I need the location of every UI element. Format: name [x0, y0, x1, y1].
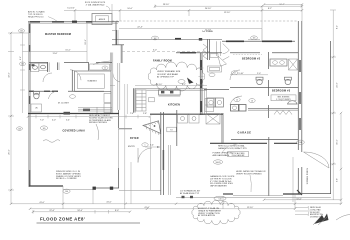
svg-text:15'-5": 15'-5" — [65, 50, 70, 52]
squiggle leader lanai — [43, 140, 60, 143]
wall: garage east x269 — [268, 137, 270, 196]
svg-text:MASTER BEDROOM: MASTER BEDROOM — [45, 33, 71, 36]
tag oval wing — [93, 61, 110, 65]
garage notes — [213, 144, 248, 157]
tag oval lanai — [40, 126, 47, 130]
svg-text:12: 12 — [104, 68, 106, 70]
entry porch: hatched wedge — [143, 121, 161, 135]
wall: x177 — [176, 110, 178, 146]
note block lanai lower (window note) — [56, 171, 82, 180]
svg-text:ENTRY: ENTRY — [128, 146, 136, 148]
svg-text:13'-2": 13'-2" — [85, 39, 87, 44]
bottom dim segment right — [264, 199, 341, 201]
svg-text:8'-0": 8'-0" — [115, 210, 119, 212]
svg-text:FAMILY ROOM: FAMILY ROOM — [153, 60, 172, 63]
wall: hall west x200 — [199, 53, 201, 115]
svg-text:20'-0": 20'-0" — [9, 149, 11, 154]
svg-text:2'-0": 2'-0" — [257, 73, 261, 75]
tag oval left wall mid — [20, 62, 26, 66]
svg-text:5'-0 1/2": 5'-0 1/2" — [67, 8, 75, 10]
svg-text:18'-4": 18'-4" — [77, 210, 82, 212]
dimension line top row2 left — [64, 8, 302, 11]
tag oval foyer — [142, 143, 148, 147]
revision cloud bottom center — [192, 200, 240, 224]
dim line lanai top with ticks — [28, 113, 150, 122]
master bath door arcs — [43, 73, 52, 82]
svg-text:SOAKING: SOAKING — [87, 79, 97, 82]
wall: left exterior — [28, 22, 30, 187]
wall: entry west double x161-164 — [160, 112, 162, 195]
left dimension vertical 1 — [8, 33, 29, 190]
window marks on left wall — [29, 24, 31, 33]
wall: porch/garage bottom — [223, 193, 233, 195]
svg-text:AT DRIVE APRON: AT DRIVE APRON — [198, 214, 216, 217]
wall: wing bottom — [28, 113, 119, 115]
closet shelves master — [78, 107, 112, 113]
kitchen counter top — [135, 88, 207, 90]
tag oval above top wall — [152, 36, 159, 40]
dimension line top row1 — [155, 4, 302, 8]
svg-text:12'-10": 12'-10" — [224, 12, 231, 14]
svg-text:22'-6": 22'-6" — [49, 210, 54, 212]
svg-text:OF EXIST HDR BEAM: OF EXIST HDR BEAM — [157, 73, 178, 76]
revision cloud family room — [148, 62, 205, 91]
svg-text:REQD FF EL 8.0: REQD FF EL 8.0 — [28, 16, 44, 18]
svg-text:105: 105 — [43, 128, 46, 130]
tag oval bath2 — [231, 71, 237, 75]
wall: porch east double — [330, 41, 332, 194]
bottom dimension line 2 — [30, 207, 295, 209]
dim line main top interior — [119, 28, 262, 30]
bed2 interior dim — [230, 73, 268, 75]
wall: bath/bed3 divider y87.4 — [230, 86, 298, 88]
wall: garage west x222.5 — [221, 113, 223, 143]
tag oval garage — [213, 160, 222, 164]
closet chevrons bed3 — [274, 111, 292, 115]
entry dim arrow — [145, 146, 160, 148]
left dimension vertical 2 — [20, 33, 25, 113]
svg-text:106: 106 — [299, 142, 302, 144]
wall: x207 upper — [207, 39, 209, 60]
wall: master bath divider y62.4 — [29, 61, 48, 63]
washer dryer boxes — [207, 98, 223, 107]
svg-text:VAPOR BARRIER: VAPOR BARRIER — [210, 185, 227, 188]
svg-text:VERIFY SPAN AND SIZE: VERIFY SPAN AND SIZE — [157, 70, 181, 73]
wall segs master bath — [71, 70, 73, 91]
foyer closet walls — [115, 30, 117, 45]
svg-text:GARAGE DOOR, IMPACT RTD: GARAGE DOOR, IMPACT RTD — [218, 147, 247, 150]
NE bath fixtures — [270, 59, 298, 70]
bath2 door arc — [230, 70, 240, 80]
screened porch door arc — [304, 152, 330, 168]
top right nook verticals — [261, 29, 263, 41]
svg-text:AND HARDWARE: AND HARDWARE — [213, 154, 230, 157]
svg-text:10'-0": 10'-0" — [127, 8, 132, 10]
entry door arc — [138, 148, 152, 163]
wall: NE exterior double — [297, 21, 299, 150]
svg-text:COVERED LANAI: COVERED LANAI — [63, 129, 86, 132]
tag box TV right of wedge — [167, 127, 177, 132]
dark tag on wing bottom — [64, 112, 71, 115]
svg-text:4'-0": 4'-0" — [52, 120, 56, 122]
svg-text:2'-8": 2'-8" — [143, 113, 147, 115]
tag oval left lanai — [17, 127, 23, 131]
SE note leaders — [295, 206, 309, 216]
svg-text:41'-0": 41'-0" — [106, 202, 111, 204]
bed3 door arc — [230, 96, 242, 105]
svg-text:10'-10": 10'-10" — [156, 84, 163, 86]
bottom leader notes left of cloud — [180, 190, 201, 199]
svg-text:INSTALL PER MFG: INSTALL PER MFG — [89, 121, 107, 124]
boxed note bed3 — [271, 95, 296, 101]
wall: family room north line y39.3 — [112, 38, 222, 40]
wall: top wall right y41.3 — [222, 40, 295, 42]
master tub/shower big box — [75, 71, 112, 92]
svg-text:16: 16 — [251, 101, 253, 103]
window marks on top wall — [30, 21, 40, 23]
svg-text:KITCHEN: KITCHEN — [168, 104, 180, 107]
tag oval left wall upper — [19, 29, 25, 33]
toilet bath2 — [256, 77, 263, 84]
svg-text:AT SLAB EDGE TYP: AT SLAB EDGE TYP — [180, 192, 200, 195]
bath partition stubs — [47, 62, 49, 72]
svg-text:24'-6": 24'-6" — [337, 82, 339, 87]
wall: bed2 east x268 — [268, 52, 270, 69]
wall: foyer north y128.8 — [118, 128, 132, 130]
hall door arcs near x222 — [223, 44, 230, 54]
water heater corner — [208, 54, 227, 77]
wall kitchen west — [132, 88, 134, 112]
vanity bath2 bottom — [231, 105, 247, 112]
wall: bed3 south y139.5 — [231, 139, 298, 141]
svg-text:C10: C10 — [218, 198, 221, 200]
svg-text:AT OPENING TYP: AT OPENING TYP — [157, 76, 175, 79]
closet boxes wing corridor — [104, 94, 111, 113]
master bath: vanity top-left — [31, 64, 48, 72]
svg-text:GARAGE: GARAGE — [238, 131, 252, 134]
svg-text:4" DIA. LEADER RQD: 4" DIA. LEADER RQD — [86, 3, 105, 6]
svg-text:105: 105 — [20, 31, 23, 33]
svg-text:9'-2": 9'-2" — [20, 56, 22, 60]
SE arrow icon — [313, 214, 329, 226]
svg-text:6'-2": 6'-2" — [182, 84, 186, 86]
WC toilet — [31, 92, 42, 113]
bottom small dim line — [33, 210, 130, 214]
posts lanai front — [93, 187, 96, 190]
svg-text:9'-8": 9'-8" — [337, 178, 339, 182]
svg-text:5.7 SQFT VERIFY: 5.7 SQFT VERIFY — [276, 99, 292, 101]
interior dim master — [23, 51, 88, 53]
stairs box near laundry — [206, 114, 220, 125]
svg-text:41'-0": 41'-0" — [39, 202, 44, 204]
note block above foyer — [89, 114, 113, 124]
svg-text:15: 15 — [236, 100, 238, 102]
SE note block — [310, 207, 323, 219]
svg-text:24'-10": 24'-10" — [205, 8, 212, 10]
svg-text:12'-10": 12'-10" — [247, 207, 254, 209]
tag oval bottom center — [214, 196, 226, 200]
svg-text:ARBOR: ARBOR — [99, 18, 106, 21]
svg-text:101: 101 — [253, 38, 256, 40]
svg-text:8'-2": 8'-2" — [337, 25, 339, 29]
laundry top wall — [204, 89, 229, 91]
wall: master wing top — [28, 21, 119, 23]
tag oval right — [297, 140, 305, 144]
wall: hall south y52.7 — [176, 52, 222, 54]
svg-text:104: 104 — [21, 64, 24, 66]
wall: bed3 closet y108.8 double — [248, 108, 298, 110]
door arc family to wing hall — [113, 73, 120, 82]
svg-text:16'-0": 16'-0" — [337, 139, 339, 144]
bottom dim risers — [124, 84, 126, 209]
svg-text:VERIFY ROUGH OPENING: VERIFY ROUGH OPENING — [236, 173, 262, 175]
svg-text:22x54 LADDER: 22x54 LADDER — [232, 154, 245, 157]
wall: lanai bottom — [29, 185, 63, 187]
svg-text:102: 102 — [154, 38, 157, 40]
zigzag attic stair — [203, 44, 207, 59]
kitchen dim line — [135, 85, 207, 87]
svg-text:5'-4": 5'-4" — [66, 120, 70, 122]
dimension risers top — [75, 4, 302, 29]
svg-text:BEDROOM #3: BEDROOM #3 — [272, 89, 291, 92]
svg-text:3'-0": 3'-0" — [153, 49, 157, 51]
svg-text:22'-4": 22'-4" — [137, 27, 142, 29]
svg-text:M. CLOSET: M. CLOSET — [58, 103, 70, 105]
svg-text:FOYER: FOYER — [130, 138, 139, 140]
kitchen right counter — [205, 89, 214, 114]
svg-text:32'-0": 32'-0" — [9, 72, 11, 77]
svg-text:7'-4": 7'-4" — [130, 113, 134, 115]
svg-text:BEDROOM #2: BEDROOM #2 — [242, 57, 261, 60]
svg-text:7'-0": 7'-0" — [40, 120, 44, 122]
svg-text:FLOOD ZONE AE8': FLOOD ZONE AE8' — [40, 216, 85, 221]
laundry cabinets row — [178, 114, 200, 123]
kitchen island — [159, 90, 181, 96]
family room dashed clg line — [122, 49, 210, 51]
svg-text:IN FIELD + CONFIRM: IN FIELD + CONFIRM — [56, 178, 77, 180]
svg-text:11'-6": 11'-6" — [52, 53, 57, 55]
entry side risers — [150, 117, 152, 190]
kitchen pantry shelves — [136, 90, 146, 111]
wall: garage north y143.3 — [210, 142, 267, 144]
roof overhang dashed line — [112, 20, 297, 22]
svg-text:5'-10": 5'-10" — [238, 73, 243, 75]
driveway curve — [336, 215, 350, 221]
svg-text:29'-10": 29'-10" — [163, 4, 170, 6]
note: roof downspout note top center — [85, 2, 110, 11]
tag oval bottom-left corner — [63, 189, 70, 193]
leader notes above garage door — [236, 170, 266, 192]
svg-text:16070: 16070 — [216, 162, 221, 164]
wall: foyer west column — [115, 22, 117, 30]
tag ovals hall — [234, 98, 240, 102]
bottom dimension line 1 — [11, 198, 341, 204]
svg-text:8'-2": 8'-2" — [268, 8, 272, 10]
svg-text:5'-4": 5'-4" — [150, 145, 154, 147]
svg-text:2x4 FRAME: 2x4 FRAME — [202, 30, 214, 33]
note: elevation note top-left with leader — [28, 11, 57, 22]
wall: wing east double — [110, 53, 112, 72]
boxed note garage — [228, 152, 249, 158]
svg-text:SCREEN PORCH: SCREEN PORCH — [307, 167, 309, 184]
arbor box — [92, 14, 112, 25]
dimension line top row3 — [205, 8, 272, 14]
svg-text:103: 103 — [18, 129, 21, 131]
right dim vertical — [330, 10, 339, 200]
laundry box left wing — [90, 64, 110, 70]
svg-text:106: 106 — [65, 191, 68, 193]
svg-text:14: 14 — [234, 73, 236, 75]
svg-text:1: 1 — [145, 145, 146, 147]
wall: hall south y114 — [150, 113, 223, 115]
garage floor note block — [210, 175, 235, 188]
toilet bath3 — [284, 77, 291, 84]
